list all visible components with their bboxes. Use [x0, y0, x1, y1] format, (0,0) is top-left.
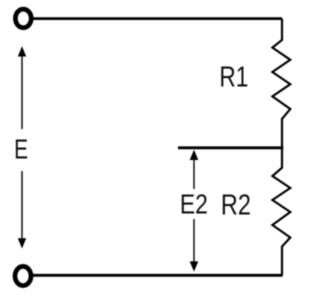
svg-text:E2: E2	[180, 188, 208, 219]
svg-text:E: E	[14, 134, 28, 165]
svg-text:R2: R2	[221, 189, 251, 221]
svg-text:R1: R1	[219, 61, 248, 93]
